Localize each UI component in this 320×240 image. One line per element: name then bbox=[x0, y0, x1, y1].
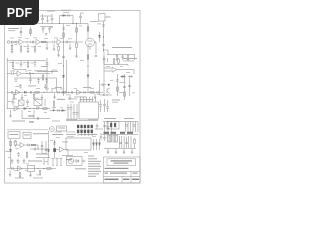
resistor R9 bbox=[57, 44, 60, 57]
label j2 bbox=[52, 120, 60, 123]
wire bbox=[15, 144, 38, 146]
op-amp U1A bbox=[19, 39, 24, 44]
node bbox=[33, 108, 34, 109]
capacitor C59 bbox=[12, 167, 13, 170]
title block company box bbox=[107, 159, 136, 166]
node big bbox=[108, 84, 110, 86]
capacitor C2 bbox=[51, 14, 54, 24]
label stage2 bbox=[35, 69, 42, 72]
capacitor C40 bbox=[58, 109, 59, 112]
title block doc text bbox=[105, 173, 138, 174]
label j-extra bbox=[6, 150, 10, 153]
wire bbox=[54, 41, 57, 43]
resistor R32 bbox=[26, 152, 28, 159]
resistor R17 bbox=[33, 94, 35, 99]
label h3 bbox=[88, 119, 98, 120]
transistor Q1 bbox=[107, 88, 110, 94]
wire rail9 bbox=[104, 148, 136, 150]
capacitor C55 bbox=[17, 152, 20, 157]
node bbox=[103, 36, 104, 37]
resistor R37 bbox=[15, 140, 17, 147]
label stage2b bbox=[41, 69, 48, 72]
capacitor C4 bbox=[79, 13, 82, 24]
wire rail5 bbox=[22, 118, 50, 120]
wire corner bbox=[52, 70, 57, 74]
wire bbox=[104, 68, 111, 71]
wire bbox=[40, 15, 52, 17]
wire bbox=[115, 149, 118, 154]
capacitor C38 bbox=[37, 117, 38, 120]
capacitor C22 bbox=[44, 84, 47, 90]
op-amp U6 bbox=[20, 142, 25, 147]
winding marks T2 bbox=[80, 98, 94, 101]
wire feedback bbox=[14, 70, 26, 73]
capacitor C49 bbox=[133, 125, 136, 126]
capacitor C67 bbox=[103, 99, 106, 112]
node bbox=[63, 41, 64, 42]
capacitor C9 bbox=[27, 44, 30, 53]
capacitor C19 bbox=[37, 78, 40, 84]
capacitor C30 bbox=[103, 56, 108, 65]
capacitor C43 electrolytic bbox=[73, 104, 76, 121]
relay K4 box bbox=[99, 14, 106, 22]
node blob2 bbox=[120, 132, 133, 134]
capacitor C18 bbox=[29, 75, 32, 84]
capacitor C62 bbox=[45, 149, 48, 150]
capacitor C21 polarized bbox=[19, 84, 22, 89]
label bc2d bbox=[67, 135, 74, 138]
label bc3 bbox=[79, 134, 97, 135]
label input text bbox=[8, 28, 19, 29]
label pw1 bbox=[104, 118, 116, 119]
capacitor C17 bbox=[29, 72, 30, 75]
capacitor C1 bbox=[41, 14, 44, 24]
label v2 bbox=[90, 20, 98, 23]
diode D13 bbox=[98, 32, 100, 42]
wire bus F bbox=[47, 131, 49, 158]
resistor R13 bbox=[27, 61, 29, 69]
title block frame bbox=[104, 157, 141, 183]
capacitor C64 bbox=[34, 61, 37, 68]
wire bbox=[46, 42, 48, 48]
wire bbox=[9, 110, 12, 117]
label bc2b bbox=[54, 131, 62, 134]
diode D6 bbox=[24, 107, 26, 109]
wire rail7 bbox=[103, 121, 138, 123]
op-amp U8 bbox=[56, 147, 74, 156]
capacitor C3 bbox=[68, 14, 69, 17]
node bbox=[63, 92, 64, 93]
transformer T1 bbox=[19, 100, 25, 106]
value labels chain1 bbox=[10, 25, 82, 47]
label bl1 bbox=[33, 133, 48, 134]
label note bbox=[28, 85, 36, 88]
wire bbox=[20, 27, 22, 36]
transformer T3 primary bbox=[108, 135, 112, 142]
label note r2 bbox=[112, 101, 118, 104]
wire rail6b bbox=[66, 120, 98, 122]
op-amp U5 bbox=[14, 106, 19, 111]
capacitor C68 bbox=[106, 100, 109, 112]
resistor R25 bbox=[29, 115, 33, 117]
power amp board PCB1 bbox=[79, 102, 99, 119]
node bbox=[32, 73, 33, 74]
resistor R20 bbox=[90, 92, 94, 94]
capacitor C60 bbox=[53, 141, 56, 144]
wire bbox=[94, 94, 97, 99]
wire bbox=[47, 16, 49, 21]
wire bus C bbox=[124, 74, 126, 100]
wire bbox=[22, 73, 50, 75]
label mains bbox=[75, 168, 86, 169]
node bbox=[68, 92, 69, 93]
wire bbox=[53, 94, 56, 99]
transformer T3 secondary bbox=[113, 135, 118, 142]
wire bbox=[38, 141, 46, 155]
wire bbox=[60, 16, 74, 24]
AC source box bbox=[67, 157, 83, 166]
wire sep bbox=[7, 129, 48, 131]
capacitor C12 bbox=[95, 55, 98, 56]
wire rail4 bbox=[7, 108, 50, 110]
op-amp U4 bbox=[112, 67, 117, 72]
label h1 bbox=[57, 99, 65, 100]
resistor R1 bbox=[87, 27, 89, 31]
label bl4 bbox=[15, 177, 24, 180]
capacitor C52 bbox=[119, 142, 122, 143]
wire bbox=[33, 110, 35, 119]
wire bbox=[100, 94, 112, 96]
capacitor C46 bbox=[103, 125, 106, 126]
diode D2 bbox=[24, 91, 26, 93]
resistor R36 bbox=[63, 33, 65, 37]
capacitor C33 bbox=[128, 85, 131, 86]
capacitor C50 bbox=[100, 133, 103, 140]
node bbox=[37, 168, 38, 169]
wire plate supply bbox=[87, 24, 89, 40]
wire grounds chain1 bbox=[53, 44, 56, 51]
label C3 bbox=[63, 11, 69, 14]
diode D10 bbox=[95, 139, 97, 150]
label mid1 bbox=[55, 86, 62, 89]
resistor R16 bbox=[13, 94, 15, 99]
wire bbox=[107, 149, 110, 154]
wire bbox=[126, 122, 139, 133]
capacitor C42 electrolytic bbox=[70, 104, 73, 121]
wire grid pins bbox=[78, 133, 92, 136]
wire rail8 bbox=[102, 134, 138, 136]
wire bbox=[9, 170, 12, 176]
wire bbox=[99, 80, 101, 95]
resistor R28 bbox=[114, 123, 116, 127]
resistor R30 bbox=[10, 141, 12, 145]
wire left bus bbox=[6, 58, 8, 109]
wire rail3 bbox=[7, 91, 50, 93]
triode V2 bbox=[86, 38, 95, 50]
resistor R8 bbox=[75, 24, 78, 58]
wire bbox=[134, 55, 136, 61]
node bbox=[63, 65, 64, 66]
resistor R2 bbox=[30, 29, 32, 33]
capacitor C58 bbox=[23, 159, 26, 165]
label row3 bbox=[12, 121, 25, 122]
wire bbox=[30, 27, 32, 36]
label h2 bbox=[66, 119, 77, 120]
wire bbox=[69, 94, 72, 100]
wire rail2 bbox=[7, 60, 46, 62]
capacitor C6 bbox=[20, 31, 23, 32]
wire rail2b bbox=[14, 78, 57, 92]
op-amp U3 bbox=[77, 90, 82, 95]
wire bbox=[81, 12, 85, 14]
resistor R6 bbox=[20, 45, 22, 53]
wire rail10 bbox=[7, 168, 56, 170]
label pw2 bbox=[124, 118, 134, 119]
node bbox=[26, 41, 27, 42]
wire bbox=[103, 52, 105, 96]
wire rail6 bbox=[50, 109, 66, 111]
capacitor C26 bbox=[58, 91, 59, 94]
capacitor C61 bbox=[41, 145, 44, 146]
relay K2 bbox=[28, 166, 35, 172]
connector P1 pin header bbox=[77, 125, 93, 133]
resistor R7 bbox=[34, 45, 36, 53]
label rail2 bbox=[41, 65, 48, 68]
wire rail right bbox=[104, 64, 128, 66]
node bbox=[72, 23, 73, 24]
wire bbox=[36, 157, 50, 159]
wire pins bbox=[52, 159, 63, 167]
capacitor C36 bbox=[26, 100, 29, 106]
wire bbox=[24, 41, 36, 43]
ground bbox=[46, 48, 49, 50]
node bbox=[59, 23, 60, 24]
capacitor C31 bbox=[128, 75, 133, 78]
wire bbox=[21, 94, 24, 99]
label h1b bbox=[68, 98, 77, 101]
wire bbox=[123, 149, 126, 154]
resistor R11 bbox=[127, 55, 129, 61]
resistor R15 bbox=[35, 92, 39, 94]
wire bbox=[41, 41, 52, 43]
capacitor C54 bbox=[28, 144, 29, 147]
resistor R4 bbox=[41, 41, 45, 43]
capacitor C5 bbox=[102, 25, 105, 26]
node bbox=[87, 65, 88, 66]
resistor R21 bbox=[113, 58, 115, 65]
capacitor C8 bbox=[32, 41, 33, 44]
diode D11 bbox=[98, 139, 100, 150]
wire bus B bbox=[87, 45, 89, 93]
wire bus G bbox=[54, 140, 56, 158]
resistor R26 bbox=[53, 100, 55, 111]
relay K1 bbox=[34, 100, 42, 106]
relay K3 box bbox=[107, 122, 119, 130]
wire bus E bbox=[10, 139, 12, 169]
label bl2 bbox=[36, 154, 48, 155]
diode D1 bbox=[63, 14, 65, 16]
connector P2 box bbox=[8, 132, 20, 138]
label send text bbox=[112, 47, 132, 48]
op-amp U7 bbox=[18, 166, 23, 171]
value labels stage2 bbox=[9, 62, 49, 96]
diode D4 bbox=[87, 75, 89, 77]
capacitor C7 bbox=[17, 41, 18, 44]
resistor R34 bbox=[19, 172, 21, 177]
connector J1 input jack bbox=[7, 41, 10, 44]
wire HT node bbox=[103, 21, 105, 52]
capacitor C10 bbox=[53, 41, 54, 44]
resistor R24 bbox=[43, 108, 47, 110]
wire B+ rail bbox=[36, 23, 88, 25]
wire bbox=[7, 73, 17, 75]
title block size row bbox=[104, 171, 141, 176]
resistor R14 bbox=[42, 74, 44, 82]
value labels botcenter bbox=[50, 136, 96, 153]
wire bbox=[131, 149, 134, 154]
label u8 bbox=[62, 141, 68, 144]
node bbox=[43, 92, 44, 93]
op-amp U1B bbox=[57, 39, 62, 44]
label input text2 bbox=[8, 29, 15, 32]
capacitor C57 bbox=[17, 159, 20, 165]
capacitor C35 bbox=[12, 100, 15, 106]
connector J2 bbox=[49, 127, 54, 132]
capacitor C25 bbox=[62, 56, 65, 57]
title block date row bbox=[122, 177, 131, 184]
capacitor C11 bbox=[66, 41, 67, 44]
wire bbox=[21, 110, 23, 119]
diode D12 bbox=[75, 160, 79, 163]
power supply block PS1 bbox=[66, 138, 91, 150]
resistor R35 bbox=[39, 170, 41, 175]
wire bus A bbox=[63, 24, 65, 97]
capacitor C34 bbox=[101, 84, 107, 87]
title block title text bbox=[105, 168, 129, 169]
capacitor C71 bbox=[34, 148, 35, 151]
wire bbox=[41, 94, 44, 99]
node bbox=[26, 73, 27, 74]
wire bbox=[10, 41, 11, 43]
wire bbox=[117, 65, 134, 75]
label row3b bbox=[29, 121, 34, 123]
op-amp U2B bbox=[16, 90, 21, 95]
capacitor C66 bbox=[62, 28, 65, 29]
wire row2 bbox=[30, 148, 48, 150]
capacitor C65 bbox=[15, 80, 18, 81]
node bbox=[69, 41, 70, 42]
label bl3 bbox=[28, 161, 42, 162]
title block date text bbox=[105, 179, 140, 180]
label bc2 bbox=[66, 134, 76, 135]
note text block bbox=[88, 156, 101, 177]
label busC bbox=[120, 81, 126, 84]
capacitor C44 electrolytic bbox=[76, 104, 79, 121]
resistor R3 bbox=[11, 41, 15, 43]
wire bbox=[44, 158, 48, 165]
label D1 bbox=[61, 10, 71, 11]
capacitor C32 bbox=[123, 86, 126, 87]
node bbox=[107, 94, 108, 95]
capacitor C48 bbox=[125, 125, 128, 126]
wire bbox=[44, 99, 46, 106]
wire bbox=[62, 41, 83, 43]
capacitor C13 bbox=[102, 44, 105, 45]
connector P3 box bbox=[23, 132, 31, 138]
resistor R22 bbox=[118, 58, 120, 65]
label reverb bbox=[37, 70, 58, 73]
label C2 value bbox=[47, 11, 55, 12]
label bc2c bbox=[66, 131, 75, 134]
value labels row3 bbox=[8, 98, 47, 113]
capacitor C56 bbox=[11, 159, 14, 165]
wire bbox=[51, 88, 53, 92]
wire bbox=[104, 50, 109, 55]
capacitor C37 bbox=[37, 107, 38, 110]
op-amp U2A bbox=[17, 71, 22, 76]
wire bbox=[82, 160, 86, 163]
diode D7 bbox=[62, 109, 64, 111]
wire bus C0 bbox=[116, 74, 119, 96]
value labels botleft bbox=[8, 142, 48, 176]
ground bbox=[45, 34, 48, 36]
capacitor C29 bbox=[97, 91, 98, 94]
resistor R18 bbox=[87, 55, 89, 59]
node bbox=[29, 108, 30, 109]
node blob bbox=[104, 132, 117, 134]
wire bbox=[29, 172, 32, 177]
ground bbox=[46, 21, 49, 23]
resistor R27 bbox=[110, 123, 112, 127]
node bbox=[42, 149, 43, 150]
triode V1A bbox=[36, 39, 41, 44]
wire bus D bbox=[129, 78, 131, 96]
transistor Q2 blob bbox=[53, 148, 56, 152]
diode D5 bbox=[120, 75, 126, 77]
value labels row3mid bbox=[52, 99, 74, 108]
label HT bbox=[106, 17, 111, 18]
wire bus A2 bbox=[66, 60, 68, 92]
capacitor C15 bbox=[20, 61, 23, 68]
AC source V3 bbox=[68, 158, 74, 164]
label k4 bbox=[97, 23, 101, 26]
capacitor C51 bbox=[103, 135, 106, 141]
capacitor C70 bbox=[48, 27, 51, 34]
label right1 bbox=[123, 58, 137, 59]
resistor R33 bbox=[47, 168, 51, 170]
resistor R5 cathode bbox=[11, 43, 13, 52]
capacitor C27 bbox=[71, 91, 72, 94]
value labels right2 bbox=[106, 66, 135, 93]
ground bbox=[11, 52, 14, 54]
label mid3 bbox=[74, 96, 86, 99]
capacitor C63 bbox=[99, 100, 102, 112]
capacitor C23 bbox=[11, 91, 12, 94]
node bbox=[46, 41, 47, 42]
node bbox=[76, 23, 77, 24]
resistor R23 bbox=[124, 92, 126, 96]
label right2 bbox=[123, 60, 134, 63]
capacitor C47 bbox=[107, 127, 110, 128]
capacitor C53 bbox=[125, 142, 128, 143]
wire bbox=[105, 122, 112, 135]
resistor R12 bbox=[12, 61, 14, 70]
capacitor C69 bbox=[42, 27, 45, 34]
capacitor C16 bbox=[12, 72, 13, 75]
node bbox=[103, 49, 104, 50]
wire riser bbox=[46, 58, 49, 92]
wire bbox=[16, 41, 19, 43]
